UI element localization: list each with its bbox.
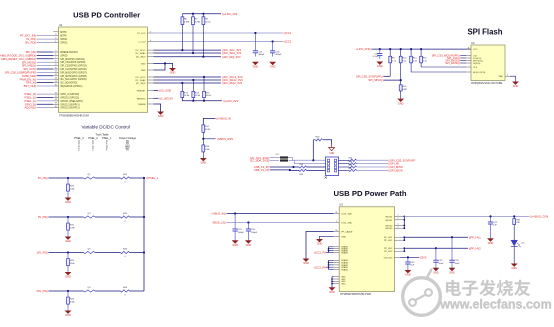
pin stub LODL_B: [334, 222, 340, 224]
svg-text:10uF: 10uF: [455, 263, 461, 265]
svg-text:SPI_MOSI/GPIO (GPIO8): SPI_MOSI/GPIO (GPIO8): [60, 76, 87, 78]
wire SPI_CS0_3V3 row: [383, 75, 390, 77]
wire SPI_CLK to U1: [37, 68, 54, 70]
ground below R26: [65, 311, 72, 314]
pin stub SPI_CLK: [53, 68, 58, 70]
wire R12 bottom to HOLD pin: [421, 63, 466, 67]
svg-text:USB_LS_N((: USB_LS_N((: [254, 168, 270, 172]
pin stub GPIO_5: [53, 103, 58, 105]
svg-text:GND: GND: [341, 284, 346, 286]
svg-text:PP_HV2: PP_HV2: [384, 248, 393, 250]
ground below C10: [376, 62, 383, 65]
svg-text:DNP: DNP: [275, 154, 280, 156]
svg-text:C_CC2: C_CC2: [138, 42, 146, 44]
svg-text:((I2C_IRQ2_3V3: ((I2C_IRQ2_3V3: [222, 81, 243, 85]
svg-text:PWR_EN_X((: PWR_EN_X((: [20, 77, 37, 81]
node bus row3: [143, 251, 145, 253]
node VBUS joins: [403, 216, 405, 218]
node junction I2C_IRQ_3V3: [202, 56, 204, 58]
wire IN_PD to U1: [37, 38, 54, 40]
svg-text:21: 21: [335, 212, 337, 214]
ground below U2: [512, 82, 519, 85]
resistor R37: [349, 169, 357, 171]
svg-text:PP_CABLE: PP_CABLE: [341, 231, 353, 234]
svg-text:GPIO0: GPIO0: [60, 55, 68, 57]
node pullup join 1: [192, 100, 194, 102]
pin stub I2C_SDA1: [148, 52, 154, 54]
svg-text:((+LDO_3V3: ((+LDO_3V3: [223, 99, 239, 103]
node rail junction 2: [202, 13, 204, 15]
node PP_HV2 join: [403, 247, 405, 249]
svg-text:1: 1: [336, 221, 337, 223]
wire VBUS_IN drop: [203, 118, 215, 125]
svg-text:W25Q80DVSNIG-ND/TUBE: W25Q80DVSNIG-ND/TUBE: [471, 82, 503, 85]
wire PSEL_3 to U1: [37, 93, 54, 95]
ground below R20: [65, 198, 72, 201]
wire PP_HV1 bar: [403, 237, 405, 240]
wire SPI_MOSI to U1: [37, 61, 54, 63]
svg-text:4: 4: [55, 41, 56, 43]
wire R45 to LED: [513, 225, 515, 241]
svg-text:VBUS1: VBUS1: [385, 216, 393, 218]
wire +LDO_3V3 spi rail: [371, 48, 471, 50]
svg-text:Variable DC/DC Control: Variable DC/DC Control: [81, 125, 129, 130]
transistor Q4: [84, 290, 96, 292]
svg-text:15: 15: [55, 84, 57, 86]
svg-text:2: 2: [55, 34, 56, 36]
pin stub BST_ON: [53, 85, 58, 87]
node 20V_PS junction: [67, 290, 69, 292]
capacitor C24: [247, 223, 249, 230]
capacitor C26: [451, 237, 453, 260]
pin stub VIN_3V3: [394, 256, 400, 258]
node spi rail junction: [379, 48, 381, 50]
svg-text:GPIO10 (GPIO13): GPIO10 (GPIO13): [60, 98, 79, 100]
svg-text:GND: GND: [511, 267, 517, 270]
svg-text:U2: U2: [471, 41, 475, 45]
connector J2: [326, 157, 339, 176]
ground below C21: [487, 238, 494, 241]
wire I2C_SCL_3V3: [154, 49, 222, 51]
resistor R20: [67, 178, 69, 184]
svg-text:SPI_MISO((: SPI_MISO((: [22, 64, 37, 68]
svg-text:19: 19: [55, 103, 57, 105]
svg-text:GND: GND: [65, 201, 71, 204]
pin stub PWR_EN_X: [53, 78, 58, 80]
wire PSEL bus vertical: [143, 178, 145, 291]
svg-text:I2C_SCL/GPIO7 (GPIO9): I2C_SCL/GPIO7 (GPIO9): [60, 79, 86, 81]
svg-text:PWR_SW((: PWR_SW((: [22, 74, 36, 78]
svg-text:IN_PD((: IN_PD((: [26, 37, 36, 41]
node DRAIN2 joins: [328, 262, 330, 264]
resistor R43: [121, 251, 130, 253]
pin stub I2C_SCL1: [148, 49, 154, 51]
wire VIN_3V3: [400, 256, 419, 258]
node 15V_PS junction: [67, 251, 69, 253]
svg-text:5V: 5V: [126, 149, 129, 152]
wire RT_EXT_IN to U1: [37, 35, 54, 37]
pin stub HRESET: [148, 89, 154, 91]
wire hdr out SPI_MISO: [339, 166, 350, 168]
svg-text:VBUS2: VBUS2: [385, 225, 393, 227]
svg-text:((CC2_PH: ((CC2_PH: [314, 265, 326, 269]
svg-text:SPI_CS/GPIO5 (GPIO5): SPI_CS/GPIO5 (GPIO5): [60, 62, 85, 64]
wire PP_CABLE to ground: [306, 232, 334, 259]
svg-text:8: 8: [55, 61, 56, 63]
svg-text:GND: GND: [329, 153, 334, 155]
pin stub CS#: [466, 55, 471, 57]
wire PWR_EN_X to U1: [37, 78, 54, 80]
svg-text:SPI_MISO((: SPI_MISO((: [368, 78, 383, 82]
ground below D2: [511, 264, 518, 267]
wire R10 bottom: [400, 63, 402, 85]
pin stub PAD: [505, 75, 510, 77]
svg-text:16: 16: [55, 92, 57, 94]
svg-text:GND: GND: [405, 274, 411, 277]
svg-text:8: 8: [468, 47, 469, 49]
svg-text:VCC: VCC: [473, 49, 478, 51]
pin stub BU_PD: [53, 42, 58, 44]
svg-text:((C_ADCIN: ((C_ADCIN: [159, 96, 173, 100]
resistor R14: [192, 80, 194, 91]
svg-text:MTP8: MTP8: [60, 36, 67, 38]
ground below C20: [405, 270, 412, 273]
svg-text:I2C_SDA2: I2C_SDA2: [135, 79, 146, 82]
svg-text:GND: GND: [141, 63, 146, 65]
wire SPI_MOSI u2: [460, 62, 466, 64]
node R10 junction: [400, 79, 402, 81]
ground below R24: [65, 272, 72, 275]
pin stubs PP_HV1: [394, 236, 404, 238]
svg-text:9V_PS((: 9V_PS((: [38, 215, 48, 219]
svg-text:18: 18: [55, 99, 57, 101]
pin stub RESETZ: [148, 97, 154, 99]
wire AMS_PGOOD_3V3_USBPD to U1: [37, 54, 54, 56]
svg-text:VIN_3V3: VIN_3V3: [384, 257, 394, 259]
wire PWR_SW to U1: [37, 75, 54, 77]
wire I2C_SCL2_3V3: [154, 76, 222, 78]
node 5V_PS junction: [67, 177, 69, 179]
svg-text:1uF: 1uF: [493, 225, 497, 227]
wire I2C_IRQ2_3V3: [154, 82, 222, 84]
svg-text:CLK: CLK: [473, 67, 478, 69]
ground below DNP: [397, 99, 404, 102]
pin stub PSEL_3: [53, 93, 58, 95]
wire 15V_PS row: [48, 252, 83, 254]
svg-text:DI(IO0): DI(IO0): [473, 63, 480, 65]
wire to ground R18: [202, 152, 204, 158]
node bus row1 corner: [143, 177, 145, 179]
svg-text:GPIO1: GPIO1: [60, 39, 68, 41]
node PP_HV2 junction: [435, 247, 437, 249]
wire LED to ground: [513, 246, 515, 263]
wire RESETZ: [154, 97, 159, 99]
resistor R17: [202, 125, 205, 132]
svg-text:20V_PS((: 20V_PS((: [36, 289, 48, 293]
wire PP_HV2 bar: [403, 248, 405, 251]
svg-text:13: 13: [55, 78, 57, 80]
svg-text:((SPI_MISO: ((SPI_MISO: [388, 165, 403, 169]
pin stub SPI_MI: [53, 51, 58, 53]
svg-text:www.elecfans.com: www.elecfans.com: [439, 298, 551, 312]
node junction I2C_SDA_3V3: [192, 52, 194, 54]
svg-text:DRAIN2: DRAIN2: [341, 268, 348, 271]
wire R40 left leg: [313, 139, 315, 141]
svg-text:+LDO_3V3((: +LDO_3V3((: [356, 47, 371, 51]
wire R24 to ground: [67, 266, 69, 272]
resistor R6: [181, 14, 183, 17]
svg-text:11: 11: [55, 71, 57, 73]
svg-text:GND: GND: [65, 314, 71, 317]
svg-text:GPIO2: GPIO2: [60, 43, 68, 45]
node VBUS_IN junction: [234, 212, 236, 214]
pin stub RT_EXT_IN: [53, 35, 58, 37]
wire SPI_MISO row: [383, 79, 400, 81]
wire divider mid: [202, 132, 204, 145]
ground below C26: [449, 268, 456, 271]
svg-text:100pF: 100pF: [238, 232, 245, 234]
svg-text:GND: GND: [433, 272, 439, 275]
wire GND bar: [331, 277, 333, 288]
svg-text:AMS_RESET_3V3_USBPD((: AMS_RESET_3V3_USBPD((: [1, 57, 36, 61]
U3 GND pins bottom: [334, 276, 340, 278]
svg-text:12: 12: [55, 74, 57, 76]
svg-text:6: 6: [150, 40, 151, 42]
ground PP_CABLE: [303, 259, 310, 262]
resistor R13: [181, 83, 183, 91]
U3 DRAIN1 pins: [334, 246, 340, 248]
svg-text:SPI_CS0_USBPD/PUFF((: SPI_CS0_USBPD/PUFF((: [5, 71, 36, 75]
svg-text:7: 7: [150, 31, 151, 33]
svg-text:((CC2: ((CC2: [284, 40, 292, 44]
capacitor C16: [272, 42, 274, 51]
wire GPIO_5 to U1: [37, 103, 54, 105]
svg-text:GND: GND: [303, 262, 309, 265]
svg-text:HRESET: HRESET: [137, 90, 147, 92]
node hdr junction r1: [312, 159, 314, 161]
pin stub I2C_SCL2: [148, 76, 154, 78]
node 9V_PS junction: [67, 216, 69, 218]
node GND joins: [331, 278, 333, 280]
svg-text:SPI_CS0_3V3/PUFF((: SPI_CS0_3V3/PUFF((: [356, 74, 383, 78]
pin stubs PP_HV2: [394, 247, 404, 249]
svg-text:5V_PS((: 5V_PS((: [38, 176, 48, 180]
capacitor C21: [490, 216, 492, 222]
node junction I2C_SCL_3V3: [181, 49, 183, 51]
wire I2C_IRQ_3V3: [154, 56, 222, 58]
svg-text:SPI_MISO/GPIO (GPIO7): SPI_MISO/GPIO (GPIO7): [60, 72, 87, 74]
svg-text:TPS65987DDHRSHR-PWR: TPS65987DDHRSHR-PWR: [340, 293, 371, 296]
wire GND b: [154, 63, 166, 70]
svg-text:RESETZ: RESETZ: [137, 98, 146, 100]
svg-text:10.0k: 10.0k: [195, 95, 201, 97]
resistor DNP1: [280, 156, 288, 158]
wire AMS_RESET_3V3_USBPD to U1: [37, 58, 54, 60]
svg-text:((PSEL_1: ((PSEL_1: [147, 176, 159, 180]
node divider tap: [202, 138, 204, 140]
node spi rail junction: [400, 48, 402, 50]
U3 DRAIN2 pins: [334, 259, 340, 261]
svg-text:GND: GND: [170, 72, 176, 75]
ground below C23: [232, 240, 239, 243]
wire PAD to ground: [510, 76, 516, 81]
svg-text:AMS_PGOOD_3V3_USBPD((: AMS_PGOOD_3V3_USBPD((: [0, 54, 36, 58]
svg-text:GND: GND: [65, 276, 71, 279]
svg-text:GND: GND: [341, 236, 346, 238]
svg-text:((SPI_MI: ((SPI_MI: [388, 162, 399, 166]
wire hdr out SPI_MI: [339, 163, 350, 165]
svg-text:SPI_MOSI((: SPI_MOSI((: [22, 60, 37, 64]
svg-text:9: 9: [507, 75, 508, 77]
resistor R12: [420, 49, 422, 56]
wire CC1 net: [154, 32, 284, 34]
resistor R11: [410, 49, 412, 56]
svg-text:PSEL_3((: PSEL_3((: [25, 92, 37, 96]
wire hdr row1: [270, 157, 280, 159]
svg-text:SPI_MI/GPIO4 (GPIO4): SPI_MI/GPIO4 (GPIO4): [60, 59, 85, 61]
svg-text:GND: GND: [513, 85, 519, 88]
node spi rail junction: [410, 48, 412, 50]
wire SPI_CLK u2: [460, 57, 466, 59]
ground below C16: [269, 62, 276, 65]
pin stubs VBUS: [394, 215, 404, 217]
watermark logo circle: [403, 269, 441, 316]
svg-text:10: 10: [55, 67, 57, 69]
svg-text:I2C_IRQ1: I2C_IRQ1: [136, 57, 147, 59]
op-amp U2: [471, 45, 505, 81]
pin stub ADCIN1: [53, 107, 58, 109]
resistor R45: [513, 216, 515, 218]
wire PSEL_2 to U1: [37, 97, 54, 99]
svg-text:((PP_HV1: ((PP_HV1: [469, 235, 482, 239]
svg-text:ADCIN1((: ADCIN1((: [25, 106, 37, 110]
pin stub GND t: [334, 235, 340, 237]
watermark text line 1: [446, 280, 530, 296]
svg-text:((VBUS_SNS: ((VBUS_SNS: [217, 137, 233, 141]
svg-text:VBUS_LS((: VBUS_LS((: [212, 221, 226, 225]
svg-text:DRAIN1: DRAIN1: [341, 251, 348, 254]
node DRAIN1 joins: [328, 248, 330, 250]
svg-text:0.1uF: 0.1uF: [373, 56, 379, 58]
svg-text:((+VBUS_CON: ((+VBUS_CON: [530, 215, 548, 219]
wire PP_HV1 long: [404, 236, 468, 238]
wire R40 right to GND arrow: [323, 140, 332, 145]
connector J2 bottom mark: [325, 177, 328, 179]
svg-text:((I2C_SDA_3V3: ((I2C_SDA_3V3: [222, 51, 242, 55]
ground below C15: [252, 62, 259, 65]
resistor R10: [400, 49, 402, 56]
node junction I2C_IRQ2_3V3: [181, 82, 183, 84]
svg-text:3: 3: [55, 37, 56, 39]
pin stub ST_LDO: [148, 32, 154, 34]
pin stub TRA_X: [53, 82, 58, 84]
svg-text:I2C_IRQ2: I2C_IRQ2: [136, 83, 147, 85]
svg-text:9: 9: [55, 64, 56, 66]
svg-text:I2C_SCL2: I2C_SCL2: [136, 77, 147, 79]
svg-text:TPS65988DHRSHR-EVM: TPS65988DHRSHR-EVM: [59, 113, 89, 117]
svg-text:GND: GND: [488, 242, 494, 245]
svg-text:PP_HV2: PP_HV2: [384, 251, 393, 253]
resistor R24: [67, 253, 69, 259]
capacitor C25: [435, 248, 437, 260]
transistor Q1: [84, 177, 96, 179]
svg-text:SPI Flash: SPI Flash: [467, 28, 502, 37]
capacitor C15: [254, 33, 256, 51]
pin stub I2C_IRQ2: [148, 82, 154, 84]
resistor R44: [121, 290, 130, 292]
wire CC2 net: [154, 41, 284, 43]
capacitor C10: [379, 49, 381, 54]
pin stub PP_CABLE: [334, 231, 340, 233]
wire THERM to ground: [154, 104, 161, 112]
node hdr junction r3: [292, 166, 294, 168]
pin stub PWR_SW: [53, 75, 58, 77]
svg-text:((CC1: ((CC1: [284, 31, 292, 35]
pin stub WP#(IO2): [466, 60, 471, 62]
svg-text:I2C_SDA1: I2C_SDA1: [135, 52, 146, 55]
pin stub SPI_CS0_USBPD/PUFF: [53, 71, 58, 73]
svg-text:GPIO13 (SUPPLY): GPIO13 (SUPPLY): [60, 108, 80, 110]
pin stub I2C_IRQ1: [148, 56, 154, 58]
svg-text:VBUS2: VBUS2: [385, 228, 393, 230]
svg-text:SPI_CLK/GPIO6 (GPIO6): SPI_CLK/GPIO6 (GPIO6): [60, 69, 87, 71]
wire SPI_MISO to U1: [37, 65, 54, 67]
svg-text:DNP: DNP: [402, 89, 407, 91]
ground below C25: [433, 268, 440, 271]
svg-text:43.2k: 43.2k: [205, 22, 211, 24]
svg-text:ST_LDO: ST_LDO: [137, 33, 146, 35]
svg-text:14: 14: [55, 81, 57, 83]
svg-text:GPIO11 (PSEL/GPIO): GPIO11 (PSEL/GPIO): [60, 101, 83, 103]
resistor R7: [192, 14, 194, 17]
resistor R9: [389, 49, 391, 56]
op-amp U3: [339, 207, 394, 292]
svg-text:LODL_A/B: LODL_A/B: [341, 213, 352, 216]
resistor R42: [121, 216, 130, 218]
pin stub LODL_A: [334, 213, 340, 215]
wire hdr out SPI_MOSI: [339, 169, 350, 171]
node PP_HV1 junction: [451, 236, 453, 238]
node bus row2: [143, 216, 145, 218]
node spi rail junction: [389, 48, 391, 50]
svg-text:SPI_MI((: SPI_MI((: [26, 50, 37, 54]
svg-text:GND: GND: [449, 272, 455, 275]
svg-text:Truth Table: Truth Table: [95, 132, 109, 136]
svg-text:GND: GND: [158, 115, 164, 118]
pin stub GND a: [148, 62, 154, 64]
wire 9V_PS row: [48, 216, 83, 218]
svg-text:((3V3: ((3V3: [420, 256, 427, 260]
svg-text:MRESET/GPIO3: MRESET/GPIO3: [60, 52, 78, 54]
wire SPI_CS0_USBPD/PUFF to U1: [37, 71, 54, 73]
ground U3 bottom: [329, 287, 336, 290]
transistor Q2: [84, 216, 96, 218]
wire +LDO_3V3 rail: [182, 13, 221, 15]
pin stub DO(IO1): [466, 57, 471, 59]
svg-text:GND: GND: [377, 65, 383, 68]
pin stub top MTP: [53, 31, 58, 33]
wire VBUS_CON long: [404, 215, 529, 217]
pin stub IN_PD: [53, 38, 58, 40]
svg-text:((PP_HV2: ((PP_HV2: [469, 246, 482, 250]
svg-text:2: 2: [397, 215, 398, 217]
svg-text:I2C_SCL1: I2C_SCL1: [136, 50, 147, 52]
svg-text:THERM: THERM: [138, 104, 146, 106]
power arrow GND: [331, 145, 333, 148]
wire R11 bottom to WP pin: [411, 63, 466, 72]
ground U3 left: [316, 239, 323, 242]
pin stub CC2: [148, 41, 154, 43]
